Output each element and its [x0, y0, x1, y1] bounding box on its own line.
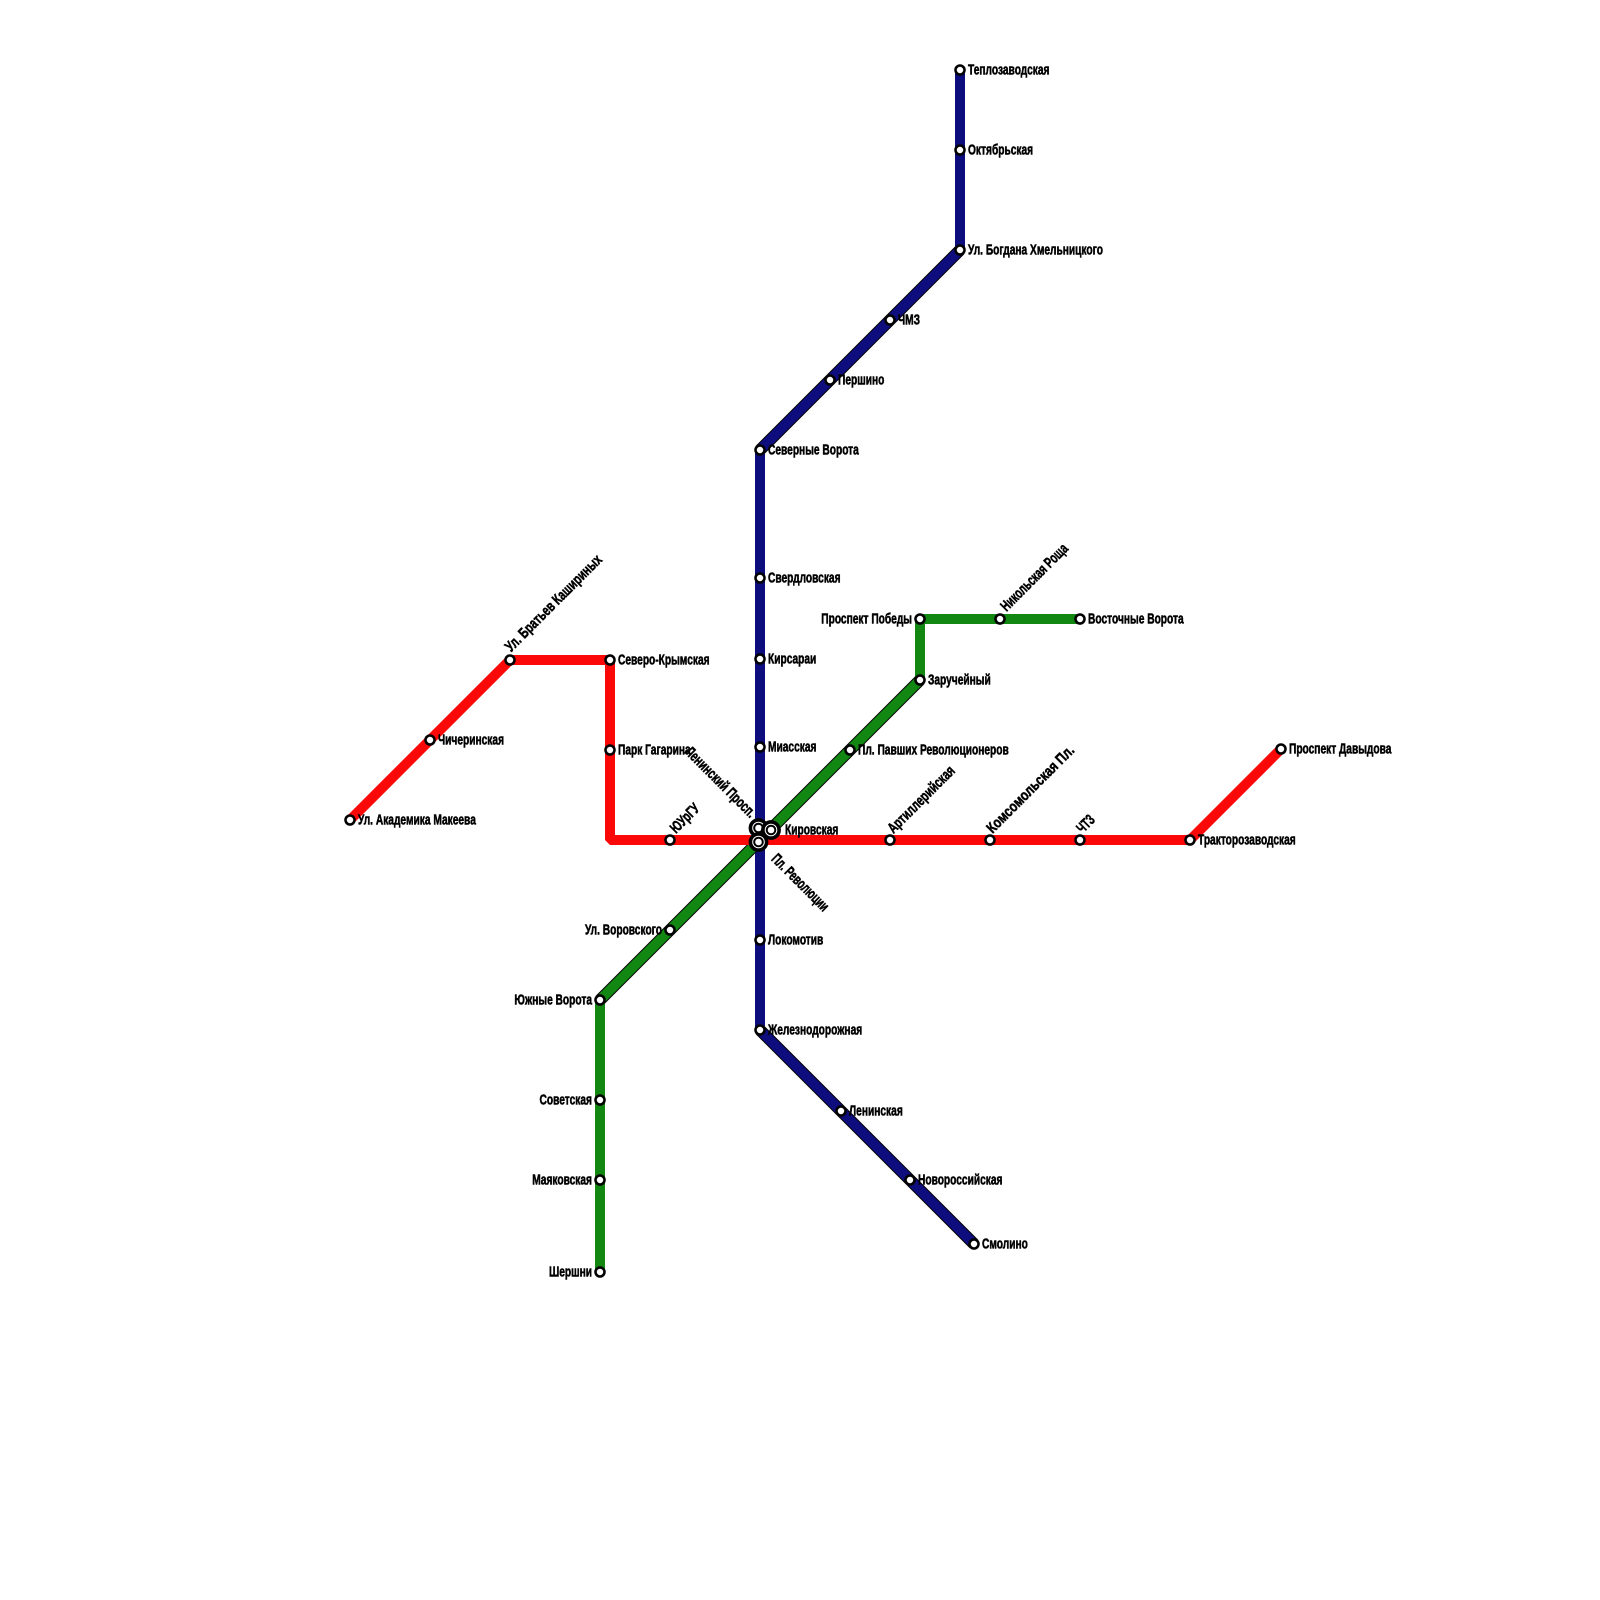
- svg-text:Северо-Крымская: Северо-Крымская: [618, 650, 710, 668]
- svg-text:Чичеринская: Чичеринская: [438, 730, 504, 748]
- svg-text:Смолино: Смолино: [982, 1234, 1028, 1252]
- svg-text:Першино: Першино: [838, 370, 884, 388]
- svg-text:Проспект Победы: Проспект Победы: [821, 609, 912, 627]
- svg-text:Ленинская: Ленинская: [849, 1101, 903, 1119]
- svg-text:Ул. Богдана Хмельницкого: Ул. Богдана Хмельницкого: [968, 240, 1103, 258]
- svg-text:Парк Гагарина: Парк Гагарина: [618, 740, 691, 758]
- svg-text:Кирсараи: Кирсараи: [768, 649, 816, 667]
- svg-text:Восточные Ворота: Восточные Ворота: [1088, 609, 1184, 627]
- svg-text:Пл. Павших Революционеров: Пл. Павших Революционеров: [858, 740, 1009, 758]
- svg-text:Кировская: Кировская: [785, 820, 838, 838]
- svg-text:Советская: Советская: [540, 1090, 592, 1108]
- svg-text:Шершни: Шершни: [549, 1262, 592, 1280]
- svg-text:Свердловская: Свердловская: [768, 568, 841, 586]
- svg-text:Октябрьская: Октябрьская: [968, 140, 1033, 158]
- svg-text:Теплозаводская: Теплозаводская: [968, 60, 1049, 78]
- svg-text:Северные Ворота: Северные Ворота: [768, 440, 860, 458]
- svg-text:Заручейный: Заручейный: [928, 670, 991, 688]
- svg-text:ЧМЗ: ЧМЗ: [898, 310, 920, 328]
- svg-text:Железнодорожная: Железнодорожная: [767, 1020, 862, 1038]
- svg-text:Тракторозаводская: Тракторозаводская: [1198, 830, 1296, 848]
- svg-text:Ул. Воровского: Ул. Воровского: [585, 920, 662, 938]
- svg-text:Новороссийская: Новороссийская: [918, 1170, 1002, 1188]
- svg-text:Маяковская: Маяковская: [532, 1170, 592, 1188]
- svg-text:Миасская: Миасская: [768, 737, 816, 755]
- svg-text:Локомотив: Локомотив: [768, 930, 823, 948]
- svg-text:Проспект Давыдова: Проспект Давыдова: [1289, 739, 1392, 757]
- svg-text:Южные Ворота: Южные Ворота: [514, 990, 592, 1008]
- svg-text:Ул. Академика Макеева: Ул. Академика Макеева: [358, 810, 477, 828]
